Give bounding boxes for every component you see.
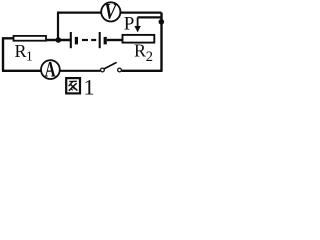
node A: junction dot (R1 / battery / voltmeter) xyxy=(56,37,62,43)
svg-text:P: P xyxy=(124,13,135,34)
slider P arrow of rheostat xyxy=(134,17,140,32)
switch S: right contact xyxy=(118,68,122,72)
switch S: left contact xyxy=(101,68,105,72)
wire: battery dashes (more cells) xyxy=(82,39,96,41)
svg-text:1: 1 xyxy=(83,75,94,100)
wire: switch to bottom-right corner xyxy=(122,70,163,72)
battery: cell 2 short thick plate xyxy=(104,37,107,45)
rheostat R2 body xyxy=(123,35,155,43)
figure label: 1 xyxy=(83,75,94,100)
voltmeter U-V: circle xyxy=(101,0,120,24)
wire: battery to rheostat R2 xyxy=(107,39,123,41)
wire: ammeter to switch xyxy=(60,70,100,72)
svg-text:R: R xyxy=(15,41,27,61)
wire: slider tap horizontal xyxy=(138,16,162,18)
wire: top horizontal to voltmeter xyxy=(57,12,101,14)
wire: R1 to battery junction xyxy=(46,39,70,41)
label R1 xyxy=(15,41,33,63)
svg-text:R: R xyxy=(134,40,146,60)
svg-text:2: 2 xyxy=(146,49,153,65)
svg-text:A: A xyxy=(45,58,56,83)
wire: voltmeter to top-right corner xyxy=(121,12,162,14)
svg-text:V: V xyxy=(104,0,117,24)
battery: cell 2 long plate xyxy=(99,32,101,48)
label P xyxy=(124,13,135,34)
wire: bottom left (corner to ammeter) xyxy=(2,70,41,72)
resistor R1 xyxy=(14,36,47,41)
battery: cell 1 long plate xyxy=(70,32,72,48)
figure label: 图 glyph (drawn) xyxy=(66,78,80,93)
wire: left vertical + top-left horizontal of main loop xyxy=(3,38,14,71)
wire: voltmeter branch vertical xyxy=(57,13,59,40)
wire: right vertical of loop xyxy=(160,13,162,71)
battery: cell 1 short thick plate xyxy=(75,37,78,45)
node B: junction dot (slider tap on right vertical) xyxy=(159,19,165,25)
ammeter U-A: circle xyxy=(41,58,60,83)
svg-text:1: 1 xyxy=(26,48,33,63)
label R2 xyxy=(134,40,153,65)
switch S: lever (open) xyxy=(104,62,116,68)
